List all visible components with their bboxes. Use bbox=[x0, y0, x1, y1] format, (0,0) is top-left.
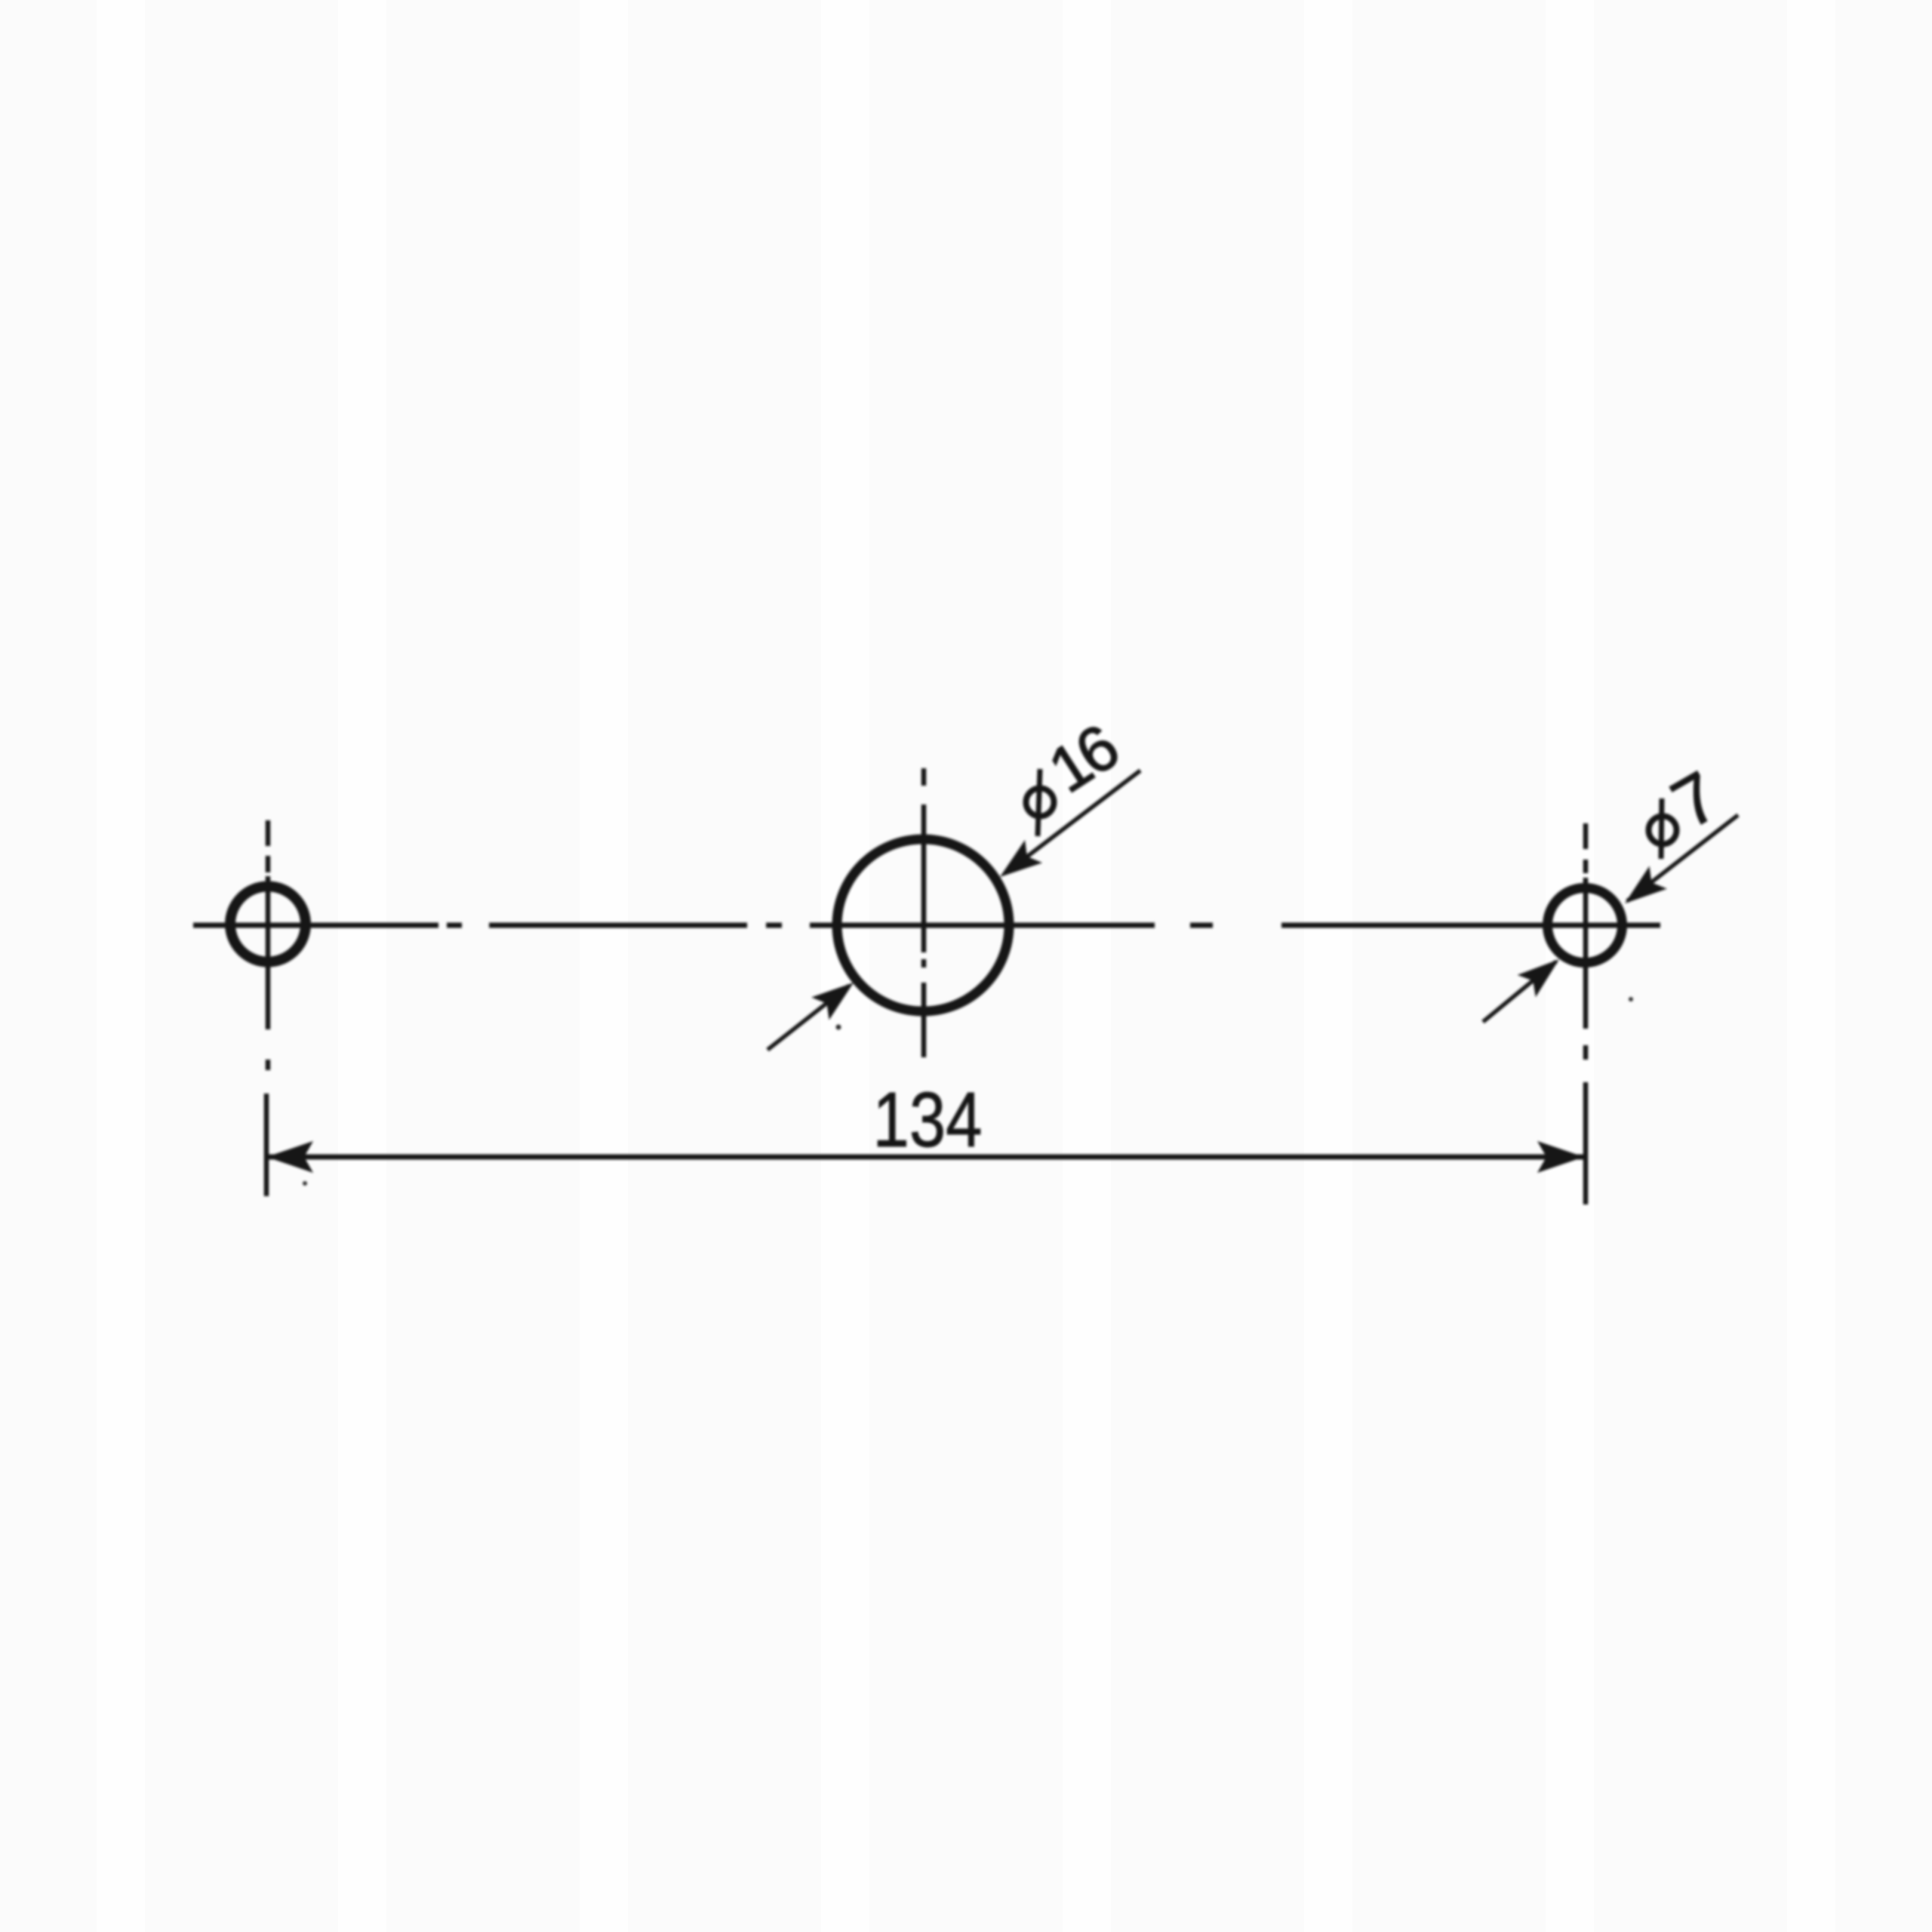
scan speck bbox=[1629, 997, 1633, 1001]
diameter symbol of label 16 bbox=[1026, 769, 1054, 836]
leader arrow (second) pointing to right hole from lower left bbox=[1483, 961, 1556, 1022]
dimension arrowhead left bbox=[266, 1141, 313, 1173]
arrowhead pointing up-right at center hole bbox=[811, 971, 863, 1020]
diameter symbol of label 7 bbox=[1649, 798, 1677, 859]
right hole circle (diameter 7) bbox=[1548, 888, 1623, 963]
svg-text:134: 134 bbox=[873, 1076, 983, 1163]
arrowhead pointing up-right at right hole bbox=[1518, 948, 1568, 997]
arrowhead of diameter-16 leader bbox=[992, 840, 1043, 888]
scan speck bbox=[836, 1025, 841, 1030]
leader line for diameter 7 label bbox=[1627, 815, 1738, 901]
scan speck bbox=[303, 1181, 307, 1186]
center hole circle (diameter 16) bbox=[837, 839, 1009, 1011]
vertical centerline of right hole (dash-dot) bbox=[1583, 823, 1589, 1204]
vertical centerline of center hole (dash-dot) bbox=[921, 768, 927, 1057]
horizontal centerline (dash-dot) through all three holes bbox=[193, 923, 1660, 928]
leader line for diameter 16 label bbox=[1005, 771, 1140, 873]
leader arrow (second) pointing to center hole from lower left bbox=[768, 986, 849, 1050]
left hole circle bbox=[230, 887, 306, 962]
arrowhead of diameter-7 leader bbox=[1616, 866, 1667, 915]
vertical centerline of left hole (dash-dot) bbox=[266, 820, 268, 1196]
dimension arrowhead right bbox=[1537, 1141, 1584, 1173]
dimension line 134 bbox=[267, 1155, 1585, 1160]
